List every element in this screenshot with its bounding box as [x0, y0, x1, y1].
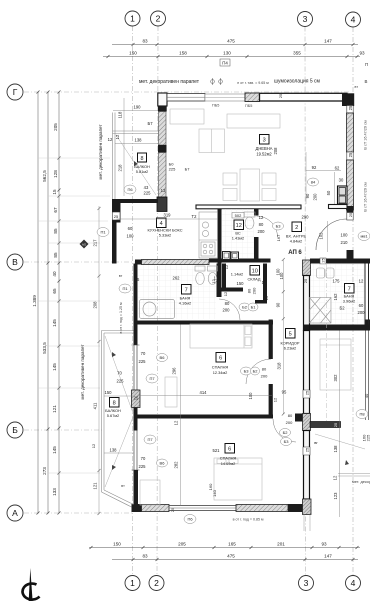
grid circle 4 bottom [346, 576, 361, 591]
wall: ap7 bath top [310, 257, 370, 264]
dim label 475 bot2 [227, 554, 235, 559]
wall: living top hatched [245, 93, 347, 102]
dimension row top 1 [112, 43, 358, 46]
svg-text:205: 205 [178, 542, 186, 547]
svg-text:25: 25 [114, 214, 119, 219]
svg-text:В6: В6 [160, 355, 166, 360]
text: met dekor right partial [352, 479, 370, 484]
svg-text:138: 138 [110, 448, 118, 453]
wall: central mid section [304, 331, 310, 414]
svg-text:138: 138 [333, 445, 338, 453]
door: bath door arc [219, 299, 240, 320]
dimension column left segments [58, 91, 61, 515]
svg-text:П7: П7 [149, 376, 155, 381]
svg-text:АП 6: АП 6 [288, 250, 302, 256]
grid circle Г [7, 84, 23, 100]
wall: right exterior 25 box a [347, 105, 353, 113]
fixture: ap7 vanity [317, 268, 335, 278]
tiles: wc floor [222, 209, 254, 258]
wall: exterior left bath/bedroom1 [134, 264, 138, 346]
svg-text:80: 80 [262, 367, 267, 372]
svg-text:12: 12 [91, 443, 96, 448]
grid line col 4 [352, 27, 354, 575]
dim: 414 bedroom2 [138, 395, 273, 397]
svg-text:201: 201 [277, 542, 285, 547]
dim label 15 left [52, 189, 57, 195]
dim: 25 central below hatch [303, 278, 308, 283]
dim label 475 top [227, 39, 235, 44]
svg-text:12: 12 [359, 279, 364, 284]
svg-text:1: 1 [130, 578, 135, 588]
dim: 150 balcony [104, 395, 134, 397]
dim: 70 225 pair b [117, 371, 125, 384]
svg-text:6: 6 [228, 447, 231, 453]
label: P6 bottom [184, 515, 196, 524]
railing: upper balcony [113, 113, 159, 200]
dim: 40 right edge [364, 393, 369, 398]
slope line ap7 [315, 434, 365, 465]
dim label 150 bot1 [113, 542, 121, 547]
dim label 83 top [142, 39, 148, 44]
svg-text:П: П [365, 62, 368, 67]
text: met dekorativen parapet top [139, 79, 200, 85]
svg-text:П1: П1 [122, 286, 128, 291]
wall: bottom hatch right [236, 505, 288, 512]
dim: 162 rot ap7 [333, 293, 338, 301]
svg-text:93: 93 [321, 542, 327, 547]
grid line row Б [24, 429, 104, 431]
room label: 10 sklad [231, 266, 267, 287]
dim: 208 living [273, 147, 278, 155]
text: met parapet vertical lower [80, 344, 85, 400]
svg-text:128: 128 [53, 170, 58, 178]
svg-text:225: 225 [366, 434, 370, 441]
svg-text:Г: Г [13, 87, 18, 97]
svg-text:83: 83 [142, 39, 148, 44]
label: B2 B3 corridor lower [280, 429, 292, 446]
dimension row top 2 [103, 55, 360, 58]
svg-text:6: 6 [219, 356, 222, 362]
text: vt top right [355, 62, 369, 89]
svg-text:4.84м2: 4.84м2 [290, 239, 302, 244]
dim: 12/80/200 wc [258, 215, 266, 234]
svg-text:67: 67 [53, 207, 58, 213]
dim: 80 200 bath door [223, 301, 231, 313]
wall: entry top bar [329, 205, 348, 209]
svg-text:Б7: Б7 [147, 121, 153, 126]
svg-text:мет. декоративен парапет: мет. декоративен парапет [80, 344, 85, 400]
svg-text:165: 165 [228, 542, 236, 547]
svg-text:ДНЕВНА: ДНЕВНА [256, 146, 273, 151]
svg-text:84: 84 [311, 180, 316, 185]
svg-text:40: 40 [52, 271, 57, 277]
svg-text:Б1: Б1 [251, 305, 257, 310]
text: vt bath left [119, 274, 123, 278]
room label: 7 ap7 bath [343, 284, 355, 304]
svg-text:96: 96 [135, 277, 140, 282]
room label: 3 dnevna [256, 135, 273, 157]
svg-text:25: 25 [278, 93, 283, 98]
label: P1 oval [97, 228, 109, 237]
slope line upper balcony [116, 135, 156, 195]
wall: stub below entry wall [254, 209, 259, 216]
svg-text:25: 25 [321, 257, 326, 262]
wall: bedroom1 top [137, 321, 273, 325]
wall: central cap at bath bottom [304, 325, 310, 331]
text: v ot g pod 0.85 [233, 518, 264, 522]
svg-text:175: 175 [333, 279, 341, 284]
label: B2 B1 ovals corridor [239, 303, 258, 311]
svg-text:411: 411 [93, 402, 98, 409]
fixture: ap7 shower [310, 298, 332, 324]
furniture: bedroom2 desk [140, 480, 160, 505]
svg-text:30: 30 [339, 178, 344, 183]
svg-text:25: 25 [134, 396, 139, 401]
svg-text:25: 25 [305, 390, 310, 395]
svg-text:138: 138 [135, 138, 143, 143]
label: mv1 oval [358, 232, 370, 241]
dim label 93 bot1 [321, 542, 327, 547]
grid circle 3 top [298, 12, 313, 27]
svg-text:85: 85 [53, 252, 58, 258]
dim label 133 left [52, 488, 57, 496]
dim label 1.389 [32, 295, 37, 307]
wall: bedroom divider [137, 415, 273, 419]
label: PV circle right [356, 410, 368, 419]
dim label 150 top2 [129, 51, 137, 56]
svg-text:П6: П6 [127, 187, 133, 192]
svg-text:160: 160 [208, 483, 213, 490]
svg-text:162: 162 [333, 293, 338, 301]
svg-text:вт: вт [355, 85, 359, 89]
window: living top left [167, 94, 205, 102]
svg-text:1: 1 [130, 14, 135, 24]
svg-text:60: 60 [359, 303, 364, 308]
dim label 130 top2 [223, 51, 231, 56]
svg-text:121: 121 [52, 405, 57, 413]
svg-text:102: 102 [319, 232, 324, 240]
svg-text:Б3: Б3 [244, 369, 250, 374]
dim: 318 corridor rot [282, 258, 285, 416]
room label: 8 balkon top [134, 153, 150, 174]
dim: 262 bath top [135, 276, 219, 283]
svg-text:8: 8 [113, 401, 116, 407]
dim: 25 bottom wall rot [170, 507, 175, 512]
dimension row bottom 1 [89, 546, 360, 549]
dim label 205 left [53, 123, 58, 131]
dim: 80 200 bedroom2 door [286, 413, 293, 425]
svg-text:60: 60 [128, 226, 133, 231]
wall: living top right cap [342, 93, 354, 106]
text: shumoizolacia [274, 79, 320, 85]
wall: living left pier top [158, 93, 167, 112]
svg-text:502: 502 [235, 213, 242, 218]
svg-text:25: 25 [303, 278, 308, 283]
wall: right exterior hatch a [347, 113, 354, 152]
dim: 302 138 12 123 right rot [339, 331, 341, 518]
svg-text:100: 100 [276, 268, 281, 276]
label: B3 oval wc [273, 222, 284, 230]
svg-text:П7: П7 [147, 437, 153, 442]
grid line row А [24, 512, 133, 514]
dim label 355 top2 [293, 51, 301, 56]
window: ap7 right bedroom [366, 331, 369, 421]
svg-text:150: 150 [237, 281, 245, 286]
label: P1 oval b [119, 284, 131, 293]
svg-text:100: 100 [341, 233, 349, 238]
svg-text:208: 208 [273, 147, 278, 155]
dim: 90 200 50 rot living right [305, 190, 331, 200]
dim: 43 / 225 / 13 [144, 185, 166, 196]
svg-text:Т2: Т2 [192, 214, 198, 219]
svg-text:14.69м2: 14.69м2 [221, 461, 236, 466]
svg-text:25: 25 [333, 422, 338, 427]
label: P7 a [146, 374, 158, 383]
svg-text:5: 5 [289, 332, 292, 338]
grid circle В [7, 254, 23, 270]
svg-text:190: 190 [134, 105, 142, 110]
dim label 562,5 [42, 170, 47, 182]
dim: 118 [118, 111, 123, 118]
svg-text:12: 12 [273, 397, 278, 402]
dim: 296 12 282 bedroom1 rot [180, 325, 182, 507]
svg-text:5.67м2: 5.67м2 [107, 413, 119, 418]
dim: 60 200 ap7 [358, 303, 366, 315]
svg-text:562,5: 562,5 [42, 170, 47, 182]
window: bedroom1 left [132, 345, 140, 390]
text: 502 box [232, 213, 244, 219]
furniture: bedroom1 bed [190, 324, 252, 348]
wall: bottom cap right [288, 504, 303, 512]
svg-text:25: 25 [305, 447, 310, 452]
wall: left black bottom [134, 470, 139, 506]
svg-text:50: 50 [326, 190, 331, 195]
wall: central bath section [304, 276, 310, 331]
railing: ap7 balcony [338, 474, 370, 477]
dim: 12 25 near storage [211, 279, 269, 301]
room label: 7 bath [179, 285, 191, 306]
wall: storage right [263, 264, 267, 304]
grid circle 3 bottom [299, 576, 314, 591]
grid line col 3 [304, 27, 307, 576]
svg-text:80: 80 [259, 222, 264, 227]
svg-text:282: 282 [174, 461, 179, 469]
wall: ap7 bedroom bottom [310, 422, 341, 428]
svg-text:296: 296 [172, 367, 177, 375]
dim label 145 left c [52, 446, 57, 454]
dim: 175 / 12 ap7 bath [333, 279, 364, 284]
svg-text:145: 145 [52, 446, 57, 454]
svg-text:3: 3 [304, 578, 309, 588]
svg-text:Б7: Б7 [185, 167, 191, 172]
svg-text:шумоизолация 5 см: шумоизолация 5 см [274, 79, 320, 85]
wall: central lower section [304, 431, 310, 500]
svg-text:вт: вт [119, 274, 123, 278]
dim label 165 bot1 [228, 542, 236, 547]
grid circle 4 top [346, 12, 361, 27]
text: met parapet vertical left [98, 124, 103, 180]
svg-text:130: 130 [223, 51, 231, 56]
svg-text:43: 43 [144, 185, 149, 190]
dim: 319 kitchen [117, 218, 218, 220]
svg-text:12: 12 [108, 137, 113, 142]
room label: 6 bedroom1 [212, 353, 229, 376]
DIMS [32, 39, 365, 562]
svg-text:5.33м2: 5.33м2 [159, 233, 171, 238]
svg-text:70: 70 [141, 351, 146, 356]
wall: central hatch top block [303, 260, 311, 276]
wall: bedroom2 door stub [295, 414, 304, 422]
svg-text:В6: В6 [160, 461, 166, 466]
svg-text:Б2: Б2 [339, 306, 345, 311]
svg-text:100: 100 [127, 234, 135, 239]
svg-text:123: 123 [333, 492, 338, 500]
svg-text:3: 3 [263, 138, 266, 144]
dim label 158 top2 [179, 51, 187, 56]
dim: 25 left pier [134, 396, 139, 401]
svg-text:318: 318 [277, 362, 282, 370]
wall: wc/entry divider [254, 237, 259, 260]
svg-text:145: 145 [52, 363, 57, 371]
svg-text:25: 25 [170, 507, 175, 512]
dim: 217 208 vertical [98, 206, 101, 515]
wall: left black below pier [134, 408, 138, 431]
svg-text:80: 80 [288, 413, 293, 418]
wall: living left window upper [159, 112, 167, 146]
svg-text:А/2: А/2 [82, 242, 86, 246]
svg-text:145: 145 [52, 319, 57, 327]
svg-text:Б3: Б3 [284, 439, 290, 444]
dim label 40 left [52, 271, 57, 277]
svg-text:12: 12 [223, 291, 228, 296]
door: bedroom2 door arc [273, 419, 296, 442]
svg-text:вг: вг [314, 440, 318, 445]
svg-text:8: 8 [141, 156, 144, 162]
dim: 138 upper balcony [115, 143, 158, 145]
svg-text:П6: П6 [187, 517, 193, 522]
svg-text:414: 414 [200, 390, 208, 395]
svg-text:121: 121 [93, 482, 98, 490]
label: B2 ap7 [339, 306, 345, 311]
window: living top mid [205, 94, 252, 108]
wall: kitchen left [112, 199, 121, 264]
dim: 218 [118, 164, 123, 172]
svg-text:93: 93 [359, 51, 365, 56]
svg-text:225: 225 [139, 464, 147, 469]
railing: lower balcony [102, 331, 134, 508]
fixture: wc toilet [244, 212, 255, 229]
svg-text:80: 80 [225, 301, 230, 306]
svg-text:ПБ5: ПБ5 [245, 104, 252, 108]
svg-text:12: 12 [262, 280, 267, 285]
dim label 65 left [52, 288, 57, 294]
text: B0 225 B7 row [169, 162, 191, 172]
svg-text:4.16м2: 4.16м2 [179, 301, 191, 306]
svg-text:262: 262 [173, 276, 181, 281]
grid circle 1 bottom [125, 576, 140, 591]
wall: ap7 bath bottom [310, 320, 370, 331]
svg-text:205: 205 [53, 123, 58, 131]
dim: 96 door bedroom2 [282, 390, 287, 395]
dim: 80 200 bedroom1 door [261, 367, 268, 379]
svg-text:6.23м2: 6.23м2 [284, 346, 296, 351]
wall: living left pier mid [158, 145, 167, 153]
svg-text:62: 62 [335, 166, 340, 171]
svg-text:Б3: Б3 [276, 224, 282, 229]
dimension row bottom 2 [112, 558, 358, 561]
wall: kitchen top [112, 199, 158, 203]
svg-text:225: 225 [169, 167, 176, 172]
room label: 8 balkon lower [105, 398, 121, 419]
svg-text:2: 2 [154, 578, 159, 588]
svg-text:12: 12 [236, 223, 242, 229]
dim: 92 62 30 living right [312, 165, 344, 183]
wall: left hatched pier [132, 390, 141, 408]
wall: storage bottom [217, 288, 244, 292]
svg-text:200: 200 [286, 420, 293, 425]
svg-text:150: 150 [113, 542, 121, 547]
svg-text:10: 10 [252, 269, 258, 275]
room label: 5 koridor [281, 329, 300, 351]
dim label 85 left b [53, 252, 58, 258]
dim label 67 left [53, 207, 58, 213]
benchmark symbols [211, 78, 223, 85]
svg-text:200: 200 [258, 229, 266, 234]
wall: right exterior 25 box b [347, 152, 353, 160]
svg-text:2: 2 [295, 225, 298, 231]
svg-text:12: 12 [259, 215, 264, 220]
svg-text:100: 100 [248, 392, 253, 400]
svg-text:167: 167 [276, 234, 281, 241]
svg-text:200: 200 [358, 310, 366, 315]
dim: 12 bath wall end [223, 291, 228, 296]
dim: 25 ap7 wall rot [333, 422, 338, 427]
fixture: bath toilet [195, 266, 218, 285]
wall: bath band left cap [135, 260, 142, 265]
furniture: living top cabinets [170, 109, 280, 128]
svg-text:12: 12 [174, 420, 179, 425]
dim: 160 225 right edge rot [362, 434, 370, 441]
svg-text:мет. декор: мет. декор [352, 479, 370, 484]
svg-text:12.34м2: 12.34м2 [213, 370, 228, 375]
wall: bottom cap left [132, 504, 142, 512]
room label: 4 kitchen [147, 218, 182, 238]
text: v ot g pod 1.25 [119, 302, 123, 333]
grid line row Г [24, 91, 350, 93]
svg-text:П8: П8 [359, 412, 365, 417]
svg-text:5.81м2: 5.81м2 [136, 169, 148, 174]
wall: storage right stub [255, 300, 267, 304]
compass north arrow [23, 568, 40, 601]
room label: 12 wc [232, 220, 244, 241]
svg-text:Б2: Б2 [253, 369, 259, 374]
svg-text:85: 85 [53, 228, 58, 234]
room label: 2 antre [286, 222, 307, 244]
label: B3 B2 bedroom1 [241, 367, 260, 375]
svg-text:вт: вт [121, 484, 125, 488]
svg-text:521: 521 [213, 448, 221, 453]
svg-text:302: 302 [333, 374, 338, 382]
svg-text:12: 12 [115, 134, 120, 139]
slope lines lower balcony [105, 336, 133, 487]
wall: right exterior hatch b [347, 160, 354, 210]
svg-text:475: 475 [227, 554, 235, 559]
svg-text:225: 225 [117, 379, 125, 384]
svg-text:40: 40 [364, 393, 369, 398]
grid circle 2 top [151, 11, 166, 26]
left extension lines [38, 158, 110, 473]
wall: central continuation below [304, 515, 310, 532]
